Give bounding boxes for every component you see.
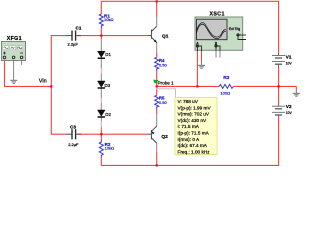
svg-text:V2: V2 — [286, 104, 292, 110]
svg-text:I: 71.5 mA: I: 71.5 mA — [178, 124, 200, 129]
svg-text:2.2µF: 2.2µF — [68, 142, 79, 147]
svg-text:Vin: Vin — [39, 79, 47, 85]
svg-text:D2: D2 — [105, 112, 111, 117]
svg-text:C3: C3 — [70, 125, 76, 130]
svg-text:V: 788 uV: V: 788 uV — [178, 99, 199, 104]
svg-text:Probe 1: Probe 1 — [158, 81, 175, 86]
svg-text:I(dc): 67.4 mA: I(dc): 67.4 mA — [178, 143, 208, 148]
svg-text:V(p-p): 1.99 mV: V(p-p): 1.99 mV — [178, 105, 212, 110]
svg-text:V1: V1 — [286, 55, 292, 61]
svg-text:Ext Trig: Ext Trig — [229, 27, 240, 31]
svg-text:V(rms): 702 uV: V(rms): 702 uV — [178, 112, 210, 117]
svg-text:100Ω: 100Ω — [220, 91, 230, 96]
svg-text:10V: 10V — [286, 61, 293, 65]
svg-text:I(p-p): 71.5 mA: I(p-p): 71.5 mA — [178, 131, 210, 136]
svg-text:10kΩ: 10kΩ — [105, 145, 114, 150]
svg-text:D1: D1 — [105, 52, 111, 57]
svg-text:C1: C1 — [76, 25, 82, 30]
svg-text:10kΩ: 10kΩ — [104, 17, 113, 22]
svg-text:R3: R3 — [223, 75, 229, 81]
svg-text:2.2µF: 2.2µF — [68, 42, 79, 47]
svg-text:D3: D3 — [105, 83, 111, 88]
svg-text:10V: 10V — [286, 111, 293, 115]
svg-text:Q2: Q2 — [161, 134, 168, 140]
svg-text:0.50: 0.50 — [159, 100, 168, 105]
svg-text:Freq.: 1.00 kHz: Freq.: 1.00 kHz — [178, 149, 211, 154]
svg-text:Q1: Q1 — [162, 34, 169, 40]
svg-text:0.50: 0.50 — [159, 62, 168, 67]
svg-text:I(rms): 0 A: I(rms): 0 A — [178, 137, 200, 142]
svg-text:V(dc): 430 nV: V(dc): 430 nV — [178, 118, 208, 123]
